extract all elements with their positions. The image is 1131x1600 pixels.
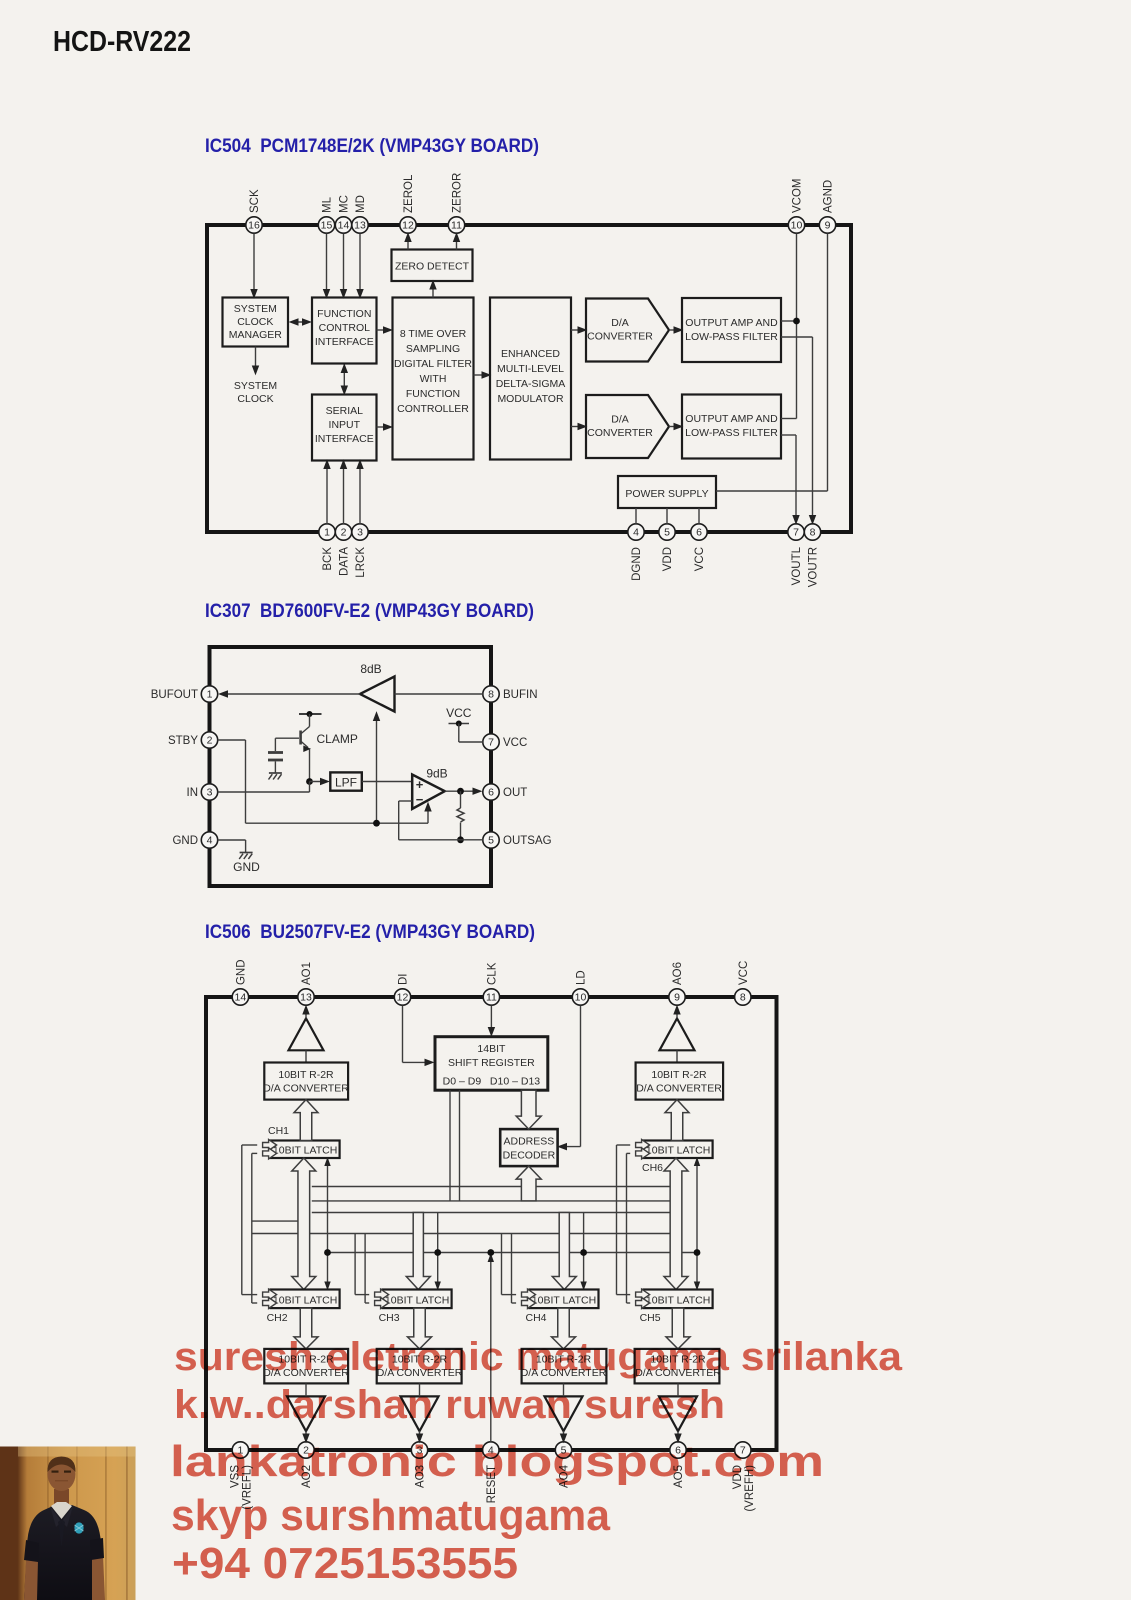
10bit R-2R D/A converter CH3 (377, 1349, 462, 1384)
svg-text:IC504 PCM1748E/2K (VMP43GY BO: IC504 PCM1748E/2K (VMP43GY BOARD) (205, 135, 539, 157)
svg-text:IN: IN (187, 787, 199, 799)
IC504 pin 1 BCK (319, 524, 335, 540)
svg-text:8: 8 (488, 689, 494, 701)
latch CH3 to DAC bus arrow (408, 1308, 432, 1349)
svg-text:D/A CONVERTER: D/A CONVERTER (636, 1083, 722, 1095)
svg-text:SERIAL: SERIAL (326, 405, 364, 417)
svg-text:12: 12 (402, 220, 414, 232)
svg-text:DIGITAL FILTER: DIGITAL FILTER (394, 358, 472, 370)
svg-text:6: 6 (696, 527, 702, 539)
svg-text:10BIT LATCH: 10BIT LATCH (273, 1145, 337, 1157)
svg-text:FUNCTION: FUNCTION (317, 308, 371, 320)
latch CH4 clock input arrows (522, 1289, 536, 1300)
svg-text:14: 14 (235, 992, 247, 1004)
svg-text:6: 6 (488, 787, 494, 799)
IC506 pin 13 AO1 (298, 989, 314, 1005)
svg-text:2: 2 (207, 735, 213, 747)
IC504 pin 4 DGND (628, 524, 644, 540)
10bit R-2R D/A converter CH6 (636, 1063, 724, 1100)
output amp and low-pass filter L (682, 298, 781, 362)
output buffer amp CH3 (inverted) (401, 1396, 439, 1431)
svg-text:WITH: WITH (420, 373, 447, 385)
svg-text:+: + (416, 777, 424, 792)
IC504 pin 3 LRCK (352, 524, 368, 540)
svg-text:GND: GND (233, 860, 260, 874)
latch CH1 to DAC bus arrow (294, 1100, 318, 1141)
svg-text:ML: ML (322, 196, 334, 213)
latch CH2 clock input arrows (263, 1289, 277, 1300)
wire LRCK (359, 462, 361, 524)
wire CLK to shift register (490, 1006, 492, 1035)
svg-text:VDD: VDD (662, 547, 674, 571)
wire 8dB amp input branch (376, 715, 378, 824)
svg-text:CONTROLLER: CONTROLLER (397, 403, 469, 415)
wire fci-sii bidirectional (343, 365, 345, 394)
svg-text:MODULATOR: MODULATOR (497, 393, 564, 405)
IC504 pin 8 VOUTR (804, 524, 820, 540)
wire OUTSAG (399, 839, 483, 841)
horizontal bus line upper (312, 1186, 670, 1188)
IC506 pin 8 VCC (735, 989, 751, 1005)
select line CH4 (583, 1213, 585, 1288)
ground symbol GND pin (240, 852, 253, 854)
wire STBY trunk (218, 739, 246, 741)
IC504 pin 5 VDD (659, 524, 675, 540)
8dB buffer amp (360, 677, 395, 712)
output buffer amp CH2 (inverted) (287, 1396, 325, 1431)
svg-text:GND: GND (172, 835, 198, 847)
svg-text:AGND: AGND (823, 180, 835, 213)
junction STBY/8dB branch (373, 820, 380, 827)
svg-text:VCOM: VCOM (792, 179, 804, 214)
svg-text:12: 12 (397, 992, 409, 1004)
IC504 pin 10 VCOM (788, 217, 804, 233)
svg-text:11: 11 (486, 992, 497, 1004)
data bus CH3 vertical arrow (406, 1213, 430, 1290)
10bit R-2R D/A converter CH4 (522, 1349, 607, 1384)
latch CH1 (271, 1141, 340, 1159)
IC307 pin 8 BUFIN (483, 686, 499, 702)
svg-text:CH2: CH2 (267, 1312, 288, 1324)
svg-text:AO6: AO6 (672, 962, 684, 985)
svg-text:D/A: D/A (611, 414, 629, 426)
output buffer amp AO1 (289, 1018, 324, 1050)
svg-text:INTERFACE: INTERFACE (315, 433, 374, 445)
clock feed CH4 outer (501, 1234, 503, 1295)
svg-text:10BIT LATCH: 10BIT LATCH (646, 1295, 710, 1307)
IC307 pin 1 BUFOUT (201, 686, 217, 702)
latch CH5 to DAC bus arrow (666, 1308, 690, 1349)
IC506 pin 10 LD (572, 989, 588, 1005)
svg-text:10BIT LATCH: 10BIT LATCH (532, 1295, 596, 1307)
IC506 pin 2 AO2 (298, 1442, 314, 1458)
svg-text:16: 16 (248, 220, 260, 232)
clock feed CH6/CH5 inner (626, 1153, 628, 1303)
14bit shift register (435, 1037, 548, 1091)
wire modulator to D/A L (571, 329, 584, 331)
svg-text:1: 1 (324, 527, 330, 539)
IC506 pin 7 VDD|(VREFH) (735, 1442, 751, 1458)
svg-text:lankatronic blogspot.com: lankatronic blogspot.com (170, 1437, 824, 1486)
IC504 pin 12 ZEROL (400, 217, 416, 233)
svg-text:VOUTR: VOUTR (808, 547, 820, 587)
svg-text:8dB: 8dB (360, 662, 381, 676)
clock feed CH3 inner (364, 1234, 366, 1304)
data bus CH4 vertical arrow (552, 1213, 576, 1290)
RESET line (490, 1257, 492, 1443)
wire trunk to 9dB amp (427, 805, 429, 823)
wire AGND to power supply (827, 234, 829, 492)
svg-text:4: 4 (633, 527, 639, 539)
wire VCOM to amp R (781, 418, 797, 420)
svg-text:VCC: VCC (446, 706, 472, 720)
svg-text:CH4: CH4 (526, 1312, 547, 1324)
svg-text:14: 14 (338, 220, 350, 232)
svg-text:SYSTEM: SYSTEM (234, 380, 277, 392)
svg-text:VCC: VCC (738, 961, 750, 985)
wire sii to digital filter (377, 426, 391, 428)
svg-text:SAMPLING: SAMPLING (406, 343, 460, 355)
IC504 pin 6 VCC (691, 524, 707, 540)
svg-text:5: 5 (664, 527, 670, 539)
svg-text:10: 10 (791, 220, 803, 232)
svg-text:VCC: VCC (503, 737, 527, 749)
svg-text:7: 7 (793, 527, 799, 539)
svg-text:AO1: AO1 (301, 962, 313, 985)
svg-text:HCD-RV222: HCD-RV222 (53, 26, 191, 58)
data bus CH1-CH2 vertical arrow (292, 1158, 316, 1290)
svg-text:DI: DI (398, 974, 410, 986)
svg-text:SHIFT REGISTER: SHIFT REGISTER (448, 1057, 535, 1069)
svg-text:CH1: CH1 (268, 1125, 289, 1137)
wire 8dB amp to BUFOUT (221, 693, 360, 695)
block function control interface (312, 298, 377, 364)
clock feed CH3 outer (354, 1234, 356, 1295)
wire MD (359, 234, 361, 297)
IC307 pin 6 OUT (483, 784, 499, 800)
svg-text:CLOCK: CLOCK (237, 393, 273, 405)
block 8-time oversampling digital filter (393, 298, 474, 460)
latch CH6 (644, 1141, 713, 1159)
svg-text:LOW-PASS FILTER: LOW-PASS FILTER (685, 331, 778, 343)
junction VCOM amp L (793, 318, 800, 325)
svg-text:14BIT: 14BIT (477, 1043, 506, 1055)
svg-text:CONVERTER: CONVERTER (587, 331, 653, 343)
clock feed CH1/CH2 inner (251, 1153, 253, 1303)
10bit R-2R D/A converter CH2 (264, 1349, 348, 1384)
svg-text:9dB: 9dB (426, 767, 447, 781)
IC506 pin 14 GND (232, 989, 248, 1005)
wire digital filter to zero detect (432, 283, 434, 298)
svg-text:11: 11 (451, 220, 462, 232)
latch CH4 to DAC bus arrow (552, 1308, 576, 1349)
wire BUFIN to 8dB amp (395, 693, 484, 695)
svg-text:IC307 BD7600FV-E2 (VMP43GY BO: IC307 BD7600FV-E2 (VMP43GY BOARD) (205, 600, 534, 622)
IC506 pin 6 AO5 (670, 1442, 686, 1458)
svg-text:skyp surshmatugama: skyp surshmatugama (171, 1491, 611, 1540)
svg-text:10BIT LATCH: 10BIT LATCH (273, 1295, 337, 1307)
wire power supply DGND (635, 508, 637, 524)
svg-text:13: 13 (300, 992, 312, 1004)
data bus CH6-CH5 vertical arrow (664, 1158, 688, 1290)
output buffer amp CH5 (inverted) (659, 1396, 697, 1431)
wire GND pin (218, 839, 246, 841)
svg-text:ENHANCED: ENHANCED (501, 348, 560, 360)
svg-text:8: 8 (810, 527, 816, 539)
wire LPF to 9dB amp (362, 781, 412, 783)
IC504 pin 16 SCK (246, 217, 262, 233)
svg-text:+94 0725153555: +94 0725153555 (172, 1539, 518, 1588)
svg-text:9: 9 (674, 992, 680, 1004)
capacitor C1 (274, 738, 276, 751)
IC506 pin 11 CLK (483, 989, 499, 1005)
output buffer amp CH4 (inverted) (545, 1396, 583, 1431)
wire LD to address decoder (580, 1006, 582, 1147)
svg-text:DELTA-SIGMA: DELTA-SIGMA (496, 378, 566, 390)
latch CH6 to DAC bus arrow (665, 1100, 689, 1141)
svg-text:VOUTL: VOUTL (791, 546, 803, 585)
shift register to address decoder bus arrow (516, 1090, 541, 1129)
clamp transistor Q1 (299, 713, 322, 715)
ground under capacitor (269, 772, 282, 774)
latch CH6 clock input arrows (636, 1140, 650, 1151)
wire system clock manager to system clock (255, 347, 257, 372)
bus line to clock feeds (310, 1233, 670, 1235)
wire power supply VCC (698, 508, 700, 524)
svg-text:MULTI-LEVEL: MULTI-LEVEL (497, 363, 564, 375)
wire zero detect to ZEROL (407, 235, 409, 250)
IC504 pin 9 AGND (819, 217, 835, 233)
svg-text:13: 13 (354, 220, 366, 232)
wire BCK (326, 462, 328, 524)
latch CH5 (644, 1290, 713, 1309)
svg-text:D/A: D/A (611, 317, 629, 329)
wire zero detect to ZEROR (456, 235, 458, 250)
wire D/A L to output amp L (669, 329, 680, 331)
svg-text:3: 3 (357, 527, 363, 539)
svg-text:LPF: LPF (335, 775, 357, 789)
wire fci to digital filter (377, 329, 391, 331)
svg-text:ADDRESS: ADDRESS (504, 1136, 555, 1148)
svg-text:MC: MC (339, 195, 351, 213)
IC307 pin 3 IN (201, 784, 217, 800)
svg-text:5: 5 (488, 835, 494, 847)
svg-text:DATA: DATA (339, 547, 351, 576)
horizontal bus pair left (252, 1220, 298, 1222)
wire DI to shift register (402, 1006, 404, 1063)
wire amp R out to VOUTL pin7 (781, 434, 796, 436)
block system clock manager (223, 298, 289, 347)
latch CH2 to DAC bus arrow (294, 1308, 318, 1349)
svg-text:LRCK: LRCK (355, 547, 367, 578)
wire amp L out to VOUTR pin8 (781, 336, 813, 338)
svg-text:MANAGER: MANAGER (229, 329, 283, 341)
svg-text:SYSTEM: SYSTEM (234, 303, 277, 315)
wire scm-fci bidirectional (291, 321, 309, 323)
junction output/resistor (457, 788, 464, 795)
D/A converter L (586, 299, 669, 362)
IC307 pin 7 VCC (483, 734, 499, 750)
select line CH6-CH5 (696, 1159, 698, 1288)
IC504 pin 7 VOUTL (788, 524, 804, 540)
svg-text:MD: MD (355, 195, 367, 213)
svg-text:CH6: CH6 (642, 1162, 663, 1174)
svg-text:10BIT LATCH: 10BIT LATCH (646, 1145, 710, 1157)
svg-text:suresh eletronic matugama sril: suresh eletronic matugama srilanka (174, 1335, 903, 1379)
svg-text:CONTROL: CONTROL (319, 322, 370, 334)
latch CH2 (271, 1290, 340, 1309)
IC307 pin 4 GND (201, 832, 217, 848)
select line CH3 (437, 1213, 439, 1288)
IC504 pin 14 MC (335, 217, 351, 233)
svg-text:8: 8 (740, 992, 746, 1004)
junction resistor/OUTSAG (457, 836, 464, 843)
latch CH1 clock input arrows (263, 1140, 277, 1151)
select line CH1-CH2 (327, 1159, 329, 1288)
wire digital filter to modulator (474, 374, 489, 376)
svg-text:k.w..darshan ruwan suresh: k.w..darshan ruwan suresh (174, 1383, 725, 1427)
block serial input interface (312, 395, 377, 461)
output buffer amp AO6 (660, 1018, 695, 1050)
svg-text:10: 10 (575, 992, 587, 1004)
wire ML (326, 234, 328, 297)
clock feed CH1/CH2 outer (241, 1145, 243, 1295)
svg-text:3: 3 (207, 787, 213, 799)
watermark stamp text (170, 1335, 903, 1588)
junction clamp emitter / LPF input (306, 778, 313, 785)
latch CH3 (383, 1290, 452, 1309)
svg-text:OUTPUT AMP AND: OUTPUT AMP AND (685, 413, 778, 425)
clock feed CH6/CH5 outer (616, 1145, 618, 1295)
svg-text:CLAMP: CLAMP (317, 732, 358, 746)
svg-text:CH5: CH5 (640, 1312, 661, 1324)
svg-text:VCC: VCC (694, 547, 706, 571)
svg-text:CONVERTER: CONVERTER (587, 427, 653, 439)
shift register output bus pair (449, 1090, 451, 1201)
svg-text:9: 9 (825, 220, 831, 232)
svg-text:BUFIN: BUFIN (503, 689, 538, 701)
wire power supply VDD (666, 508, 668, 524)
wire DATA (343, 462, 345, 524)
block power supply (618, 476, 716, 508)
svg-text:OUTPUT AMP AND: OUTPUT AMP AND (685, 317, 778, 329)
IC504 pin 13 MD (352, 217, 368, 233)
10bit R-2R D/A converter CH1 (264, 1063, 348, 1100)
address decoder (500, 1129, 557, 1166)
IC506 package outline (206, 997, 777, 1450)
wire 9dB output to OUT (445, 790, 479, 792)
block zero detect (392, 250, 473, 282)
IC307 pin 2 STBY (201, 732, 217, 748)
svg-text:4: 4 (207, 835, 213, 847)
photo of person (0, 1447, 136, 1600)
svg-text:IC506 BU2507FV-E2 (VMP43GY BO: IC506 BU2507FV-E2 (VMP43GY BOARD) (205, 921, 535, 943)
svg-text:CLK: CLK (486, 962, 498, 985)
svg-text:D/A CONVERTER: D/A CONVERTER (263, 1083, 349, 1095)
wire feedback to inverting input (398, 801, 400, 840)
latch CH5 clock input arrows (636, 1289, 650, 1300)
svg-text:STBY: STBY (168, 735, 198, 747)
horizontal bus pair right (312, 1200, 670, 1202)
svg-text:1: 1 (207, 689, 213, 701)
svg-text:GND: GND (235, 959, 247, 985)
svg-text:INPUT: INPUT (329, 419, 361, 431)
svg-text:DGND: DGND (631, 547, 643, 581)
svg-text:SCK: SCK (249, 189, 261, 213)
svg-text:DECODER: DECODER (503, 1150, 556, 1162)
svg-text:ZERO DETECT: ZERO DETECT (395, 261, 470, 273)
clock feed CH4 inner (511, 1234, 513, 1304)
latch CH4 (530, 1290, 599, 1309)
latch CH3 clock input arrows (375, 1289, 389, 1300)
svg-text:CH3: CH3 (379, 1312, 400, 1324)
D/A converter R (586, 395, 669, 458)
IC506 pin 4 RESET (483, 1442, 499, 1458)
IC504 pin 15 ML (318, 217, 334, 233)
svg-text:LD: LD (576, 970, 588, 985)
svg-text:POWER SUPPLY: POWER SUPPLY (625, 488, 708, 500)
IC506 pin 3 AO3 (411, 1442, 427, 1458)
output amp and low-pass filter R (682, 395, 781, 459)
svg-text:10BIT R-2R: 10BIT R-2R (278, 1069, 334, 1081)
block delta-sigma modulator (490, 298, 571, 460)
9dB op-amp (412, 775, 445, 809)
resistor R1 (460, 791, 462, 808)
LPF block (330, 772, 362, 790)
IC307 package outline (210, 647, 492, 886)
wire IN to LPF (218, 791, 310, 793)
IC506 pin 5 AO4 (555, 1442, 571, 1458)
wire VCOM rail (796, 234, 798, 419)
IC506 pin 12 DI (394, 989, 410, 1005)
wire modulator to D/A R (571, 426, 584, 428)
address decoder input bus arrow (516, 1166, 541, 1201)
10bit R-2R D/A converter CH5 (635, 1349, 720, 1384)
svg-text:15: 15 (321, 220, 333, 232)
svg-text:D0 – D9 D10 – D13: D0 – D9 D10 – D13 (443, 1076, 541, 1088)
svg-text:−: − (416, 792, 424, 807)
IC504 pin 2 DATA (335, 524, 351, 540)
svg-text:ZEROL: ZEROL (403, 174, 415, 213)
svg-text:BCK: BCK (322, 547, 334, 571)
select line with junctions (328, 1252, 698, 1254)
svg-text:BUFOUT: BUFOUT (151, 689, 198, 701)
svg-text:10BIT LATCH: 10BIT LATCH (385, 1295, 449, 1307)
svg-text:OUT: OUT (503, 787, 527, 799)
wire clamp base (275, 737, 299, 739)
wire MC (343, 234, 345, 297)
svg-text:7: 7 (488, 737, 494, 749)
svg-text:CLOCK: CLOCK (237, 316, 273, 328)
svg-text:INTERFACE: INTERFACE (315, 336, 374, 348)
IC504 package outline (207, 225, 851, 532)
svg-text:OUTSAG: OUTSAG (503, 835, 552, 847)
svg-text:10BIT R-2R: 10BIT R-2R (651, 1069, 707, 1081)
wire D/A R to output amp R (669, 426, 680, 428)
wire SCK to system clock manager (253, 234, 255, 297)
svg-text:LOW-PASS FILTER: LOW-PASS FILTER (685, 427, 778, 439)
svg-text:FUNCTION: FUNCTION (406, 388, 460, 400)
svg-text:2: 2 (341, 527, 347, 539)
IC506 pin 9 AO6 (669, 989, 685, 1005)
IC506 pin 1 VSS|(VREFL) (232, 1442, 248, 1458)
IC504 pin 11 ZEROR (448, 217, 464, 233)
svg-text:8 TIME OVER: 8 TIME OVER (400, 328, 467, 340)
IC307 pin 5 OUTSAG (483, 832, 499, 848)
svg-text:ZEROR: ZEROR (452, 173, 464, 213)
